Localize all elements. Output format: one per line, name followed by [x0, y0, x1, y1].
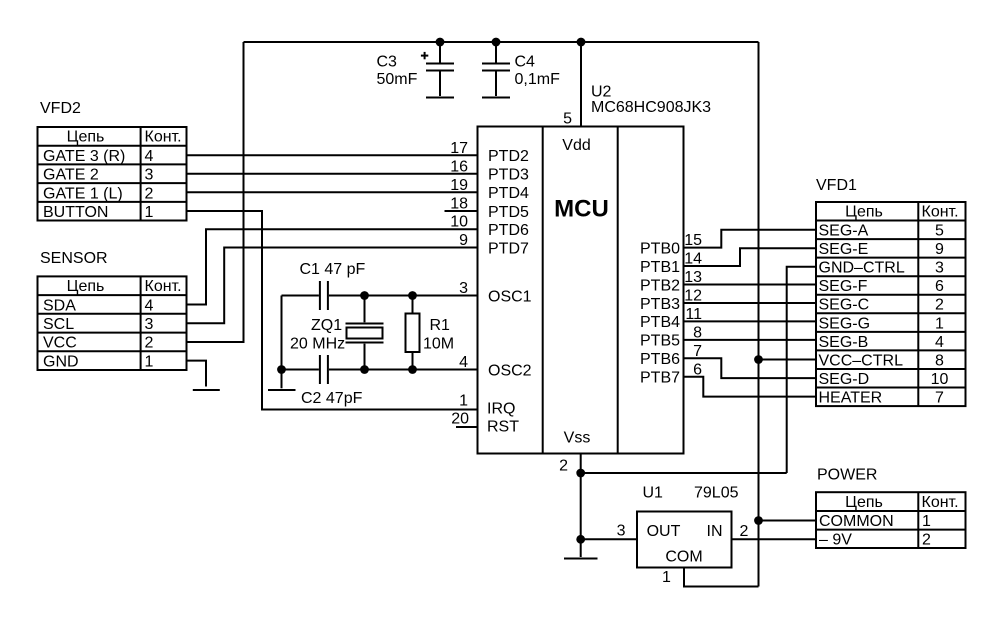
capacitor C1 [320, 281, 328, 310]
svg-text:6: 6 [693, 361, 702, 378]
pin 18 PTD5 [450, 196, 529, 221]
svg-text:Цепь: Цепь [845, 204, 883, 221]
svg-text:8: 8 [693, 324, 702, 341]
label 79L05 [694, 485, 739, 502]
svg-text:Конт.: Конт. [145, 278, 182, 295]
wire OUT to Vss [581, 538, 637, 540]
pin 2 Vss [559, 429, 590, 474]
wire GND-CTRL to Vss rail [787, 267, 817, 473]
svg-text:10M: 10M [423, 336, 454, 353]
svg-text:2: 2 [145, 185, 154, 202]
svg-text:17: 17 [450, 140, 468, 157]
ground (below C3) [426, 97, 454, 99]
svg-text:PTB6: PTB6 [640, 351, 680, 368]
junction dot OSC2/ground [277, 365, 286, 374]
ground (below C4) [482, 97, 510, 99]
svg-text:PTB0: PTB0 [640, 240, 680, 257]
svg-text:7: 7 [935, 389, 944, 406]
svg-text:MC68HC908JK3: MC68HC908JK3 [591, 99, 711, 116]
pin 19 PTD4 [450, 177, 529, 202]
svg-text:PTD6: PTD6 [488, 222, 529, 239]
pin 3 OSC1 [459, 280, 532, 305]
svg-text:SEG-G: SEG-G [819, 315, 871, 332]
svg-text:PTB3: PTB3 [640, 296, 680, 313]
svg-text:4: 4 [145, 148, 154, 165]
wire PTB1 to SEG-E [684, 248, 818, 266]
svg-text:SENSOR: SENSOR [40, 250, 108, 267]
pin 9 PTD7 [459, 232, 529, 257]
label SENSOR [40, 250, 108, 267]
svg-text:SEG-D: SEG-D [819, 371, 870, 388]
svg-text:3: 3 [617, 523, 626, 540]
svg-text:OSC1: OSC1 [488, 288, 532, 305]
svg-text:3: 3 [145, 167, 154, 184]
junction dot rail/C4 [492, 38, 501, 47]
svg-text:SCL: SCL [43, 316, 74, 333]
svg-text:13: 13 [684, 269, 702, 286]
label VFD1 [816, 177, 857, 194]
svg-text:VCC–CTRL: VCC–CTRL [819, 352, 904, 369]
junction dot OSC2/R1 [408, 365, 417, 374]
label C3 50mF [377, 54, 418, 89]
svg-text:Конт.: Конт. [922, 204, 959, 221]
wire OSC2 net [282, 369, 478, 371]
svg-text:POWER: POWER [817, 467, 877, 484]
wire PTB0 to SEG-A [684, 230, 818, 248]
pin 15 PTB0 [640, 232, 702, 257]
svg-text:PTB7: PTB7 [640, 370, 680, 387]
svg-text:0,1mF: 0,1mF [515, 71, 561, 88]
svg-text:HEATER: HEATER [819, 389, 883, 406]
svg-text:Цепь: Цепь [845, 494, 883, 511]
wire GND from SENSOR [186, 361, 206, 387]
wire PTB3 to SEG-C [684, 302, 818, 304]
svg-text:IN: IN [707, 523, 723, 540]
svg-text:18: 18 [450, 196, 468, 213]
svg-text:BUTTON: BUTTON [43, 204, 108, 221]
svg-text:2: 2 [922, 532, 931, 549]
capacitor C4 [482, 42, 510, 96]
wire COMMON from rail drop [759, 520, 818, 522]
svg-text:9: 9 [935, 241, 944, 258]
svg-text:SEG-B: SEG-B [819, 334, 869, 351]
svg-text:3: 3 [145, 316, 154, 333]
svg-text:19: 19 [450, 177, 468, 194]
wire PTB5 to SEG-B [684, 339, 818, 341]
svg-text:2: 2 [145, 335, 154, 352]
svg-text:SDA: SDA [43, 297, 76, 314]
pin 17 PTD2 [450, 140, 529, 165]
wire +V top rail [244, 41, 759, 43]
svg-text:1: 1 [922, 513, 931, 530]
pin 14 PTB1 [640, 251, 702, 276]
wire GATE 2 to PTD3 [186, 173, 478, 175]
svg-text:C1 47 pF: C1 47 pF [300, 261, 366, 278]
junction dot OSC2/ZQ1 [360, 365, 369, 374]
pin 20 RST [451, 411, 519, 436]
connector POWER [816, 492, 966, 548]
svg-text:16: 16 [450, 158, 468, 175]
pin 16 PTD3 [450, 158, 529, 183]
junction dot VCC-CTRL [754, 355, 763, 364]
svg-text:6: 6 [935, 278, 944, 295]
junction dot OUT wire [576, 535, 585, 544]
pin 2 IN [707, 523, 749, 540]
wire stub PTD5 pin 18 [445, 210, 478, 212]
svg-text:OSC2: OSC2 [488, 362, 532, 379]
wire Vdd drop to MCU pin 5 [580, 42, 582, 127]
connector VFD1 [816, 202, 966, 406]
label VFD2 [40, 100, 81, 117]
junction dot OSC1/R1 [408, 291, 417, 300]
svg-text:3: 3 [459, 280, 468, 297]
svg-text:PTB2: PTB2 [640, 277, 680, 294]
svg-text:U1: U1 [643, 485, 664, 502]
svg-text:5: 5 [563, 111, 572, 128]
svg-text:1: 1 [662, 569, 671, 586]
junction dot Vss rail [576, 469, 585, 478]
wire PTB2 to SEG-F [684, 284, 818, 286]
svg-text:10: 10 [931, 371, 949, 388]
MCU U2 MC68HC908JK3 box [478, 127, 684, 454]
pin 13 PTB2 [640, 269, 702, 294]
svg-text:Vdd: Vdd [562, 137, 590, 154]
label ZQ1 20 MHz [290, 317, 345, 353]
svg-text:C2 47pF: C2 47pF [301, 390, 363, 407]
wire IN to -9V [732, 538, 818, 540]
svg-text:PTD3: PTD3 [488, 167, 529, 184]
wire VCC-CTRL from rail drop [759, 359, 818, 361]
pin 3 OUT [617, 523, 681, 541]
wire GATE 3 (R) to PTD2 [186, 154, 478, 156]
junction dot OSC1/ZQ1 [360, 291, 369, 300]
svg-text:1: 1 [145, 204, 154, 221]
svg-text:Цепь: Цепь [67, 278, 105, 295]
wire left vertical C1/C2 common [281, 296, 283, 370]
svg-text:Конт.: Конт. [145, 129, 182, 146]
svg-text:15: 15 [684, 232, 702, 249]
pin 10 PTD6 [450, 214, 529, 239]
label MC68HC908JK3 [591, 99, 711, 116]
svg-text:10: 10 [450, 214, 468, 231]
pin 11 PTB4 [640, 306, 702, 331]
label R1 10M [423, 317, 454, 353]
wire stub RST pin 20 [456, 426, 478, 428]
regulator U1 79L05 [637, 512, 732, 568]
wire VCC riser from SENSOR to rail [186, 42, 244, 342]
svg-text:PTB5: PTB5 [640, 333, 680, 350]
svg-text:11: 11 [685, 306, 702, 323]
ground (crystal circuit) [268, 389, 296, 391]
pin 6 PTB7 [640, 361, 702, 386]
svg-text:GND: GND [43, 353, 79, 370]
svg-text:20 MHz: 20 MHz [290, 336, 345, 353]
svg-text:VFD2: VFD2 [40, 100, 81, 117]
svg-text:SEG-E: SEG-E [819, 241, 869, 258]
label C4 0,1mF [515, 54, 561, 89]
svg-text:COMMON: COMMON [819, 513, 894, 530]
label C1 47 pF [300, 261, 366, 278]
svg-text:20: 20 [451, 411, 469, 428]
connector SENSOR [38, 276, 187, 370]
svg-text:2: 2 [559, 458, 568, 475]
wire PTB7 to HEATER [684, 377, 818, 397]
wire BUTTON to IRQ [186, 211, 478, 410]
wire OSC1 net [282, 295, 478, 297]
svg-text:PTB4: PTB4 [640, 314, 680, 331]
svg-text:C3: C3 [377, 54, 398, 71]
svg-text:4: 4 [459, 354, 468, 371]
svg-text:1: 1 [459, 393, 468, 410]
svg-text:3: 3 [935, 260, 944, 277]
svg-text:GATE 2: GATE 2 [43, 167, 99, 184]
pin 12 PTB3 [640, 287, 702, 312]
svg-text:2: 2 [740, 523, 749, 540]
svg-text:PTD4: PTD4 [488, 185, 529, 202]
wire COM to COMMON net [684, 568, 759, 587]
svg-text:RST: RST [487, 419, 519, 436]
pin 8 PTB5 [640, 324, 702, 349]
svg-text:SEG-C: SEG-C [819, 297, 870, 314]
svg-text:ZQ1: ZQ1 [311, 317, 342, 334]
pin 1 IRQ [459, 393, 515, 418]
ground (SENSOR GND) [193, 389, 220, 391]
capacitor C3 [421, 42, 454, 96]
svg-text:4: 4 [145, 297, 154, 314]
svg-text:1: 1 [145, 353, 154, 370]
junction dot COMMON [754, 516, 763, 525]
svg-text:1: 1 [935, 315, 944, 332]
label C2 47pF [301, 390, 363, 407]
wire Vss drop pin 2 [580, 454, 582, 558]
svg-text:Vss: Vss [564, 429, 591, 446]
svg-text:9: 9 [459, 232, 468, 249]
svg-text:5: 5 [935, 223, 944, 240]
svg-text:PTB1: PTB1 [640, 259, 680, 276]
capacitor C2 [320, 355, 328, 384]
svg-text:– 9V: – 9V [819, 532, 852, 549]
wire Vss rail [581, 472, 787, 474]
svg-text:GATE 3 (R): GATE 3 (R) [43, 148, 125, 165]
pin 7 PTB6 [640, 343, 702, 368]
crystal ZQ1 [346, 296, 384, 370]
svg-text:7: 7 [693, 343, 702, 360]
svg-text:GND–CTRL: GND–CTRL [819, 260, 905, 277]
svg-text:R1: R1 [430, 317, 451, 334]
svg-text:4: 4 [935, 334, 944, 351]
label U2 [591, 84, 612, 101]
label MCU [554, 196, 609, 223]
svg-text:SEG-A: SEG-A [819, 223, 869, 240]
ground (Vss / U1 OUT) [564, 558, 598, 560]
wire GATE 1 (L) to PTD4 [186, 191, 478, 193]
svg-text:COM: COM [665, 549, 702, 566]
svg-text:PTD2: PTD2 [488, 148, 529, 165]
label U1 [643, 485, 664, 502]
wire SDA to PTD6 [186, 229, 478, 304]
svg-text:SEG-F: SEG-F [819, 278, 868, 295]
svg-text:PTD7: PTD7 [488, 240, 529, 257]
svg-text:Цепь: Цепь [67, 129, 105, 146]
connector VFD2 [38, 127, 187, 221]
svg-text:79L05: 79L05 [694, 485, 739, 502]
pin 1 COM [662, 549, 703, 587]
svg-text:Конт.: Конт. [922, 494, 959, 511]
pin 4 OSC2 [459, 354, 532, 379]
svg-text:VCC: VCC [43, 335, 77, 352]
svg-text:U2: U2 [591, 84, 612, 101]
svg-text:IRQ: IRQ [487, 401, 515, 418]
svg-text:12: 12 [684, 287, 702, 304]
pin 5 Vdd [562, 111, 590, 154]
wire ground stem crystal [281, 370, 283, 389]
wire rail drop to VCC-CTRL and COMMON net [758, 42, 760, 587]
svg-text:GATE 1 (L): GATE 1 (L) [43, 185, 123, 202]
junction dot rail/C3 [436, 38, 445, 47]
svg-text:VFD1: VFD1 [816, 177, 857, 194]
svg-text:50mF: 50mF [377, 71, 418, 88]
svg-text:14: 14 [684, 251, 702, 268]
svg-text:8: 8 [935, 352, 944, 369]
svg-text:MCU: MCU [554, 196, 609, 223]
wire PTB4 to SEG-G [684, 320, 818, 322]
svg-text:PTD5: PTD5 [488, 204, 529, 221]
svg-text:C4: C4 [515, 54, 536, 71]
junction dot rail/Vdd [577, 38, 586, 47]
label POWER [817, 467, 877, 484]
wire PTB6 to SEG-D [684, 358, 818, 378]
wire SCL to PTD7 [186, 248, 478, 324]
svg-text:OUT: OUT [647, 523, 681, 540]
svg-text:2: 2 [935, 297, 944, 314]
resistor R1 [406, 296, 420, 370]
